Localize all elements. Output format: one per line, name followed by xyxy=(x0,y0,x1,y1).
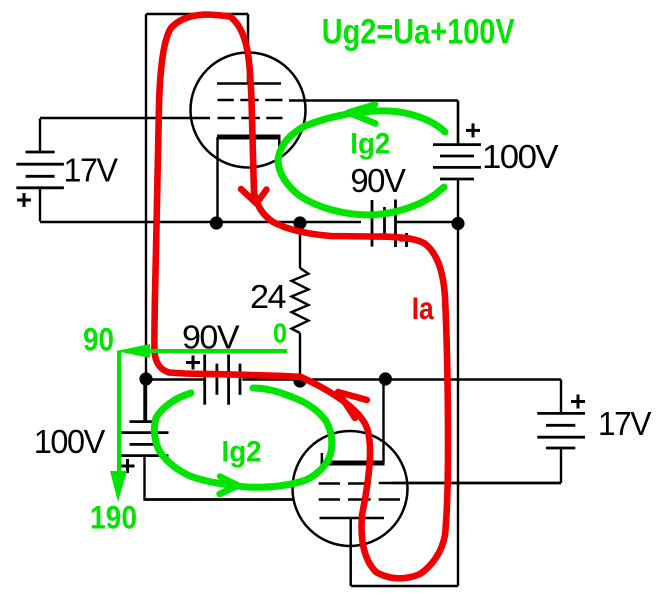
svg-text:17V: 17V xyxy=(64,151,118,188)
svg-text:90V: 90V xyxy=(350,162,405,199)
wire bottom bus right segment xyxy=(242,378,561,380)
resistor R1 24 xyxy=(292,222,309,380)
battery B1 17V left xyxy=(16,118,64,221)
battery B6 17V bottom right xyxy=(537,413,585,448)
tube V1 anode xyxy=(217,14,281,84)
measure arrow vertical (190 scale) xyxy=(110,351,127,502)
tube V1 envelope xyxy=(191,53,306,168)
svg-text:Ig2: Ig2 xyxy=(222,436,262,469)
plus sign B1 xyxy=(17,193,31,207)
svg-text:190: 190 xyxy=(90,500,137,536)
wire bottom-right screen bus xyxy=(392,482,561,484)
current loop Ia (red) xyxy=(154,15,448,579)
wire bottom-left grid bus xyxy=(145,456,295,500)
plus sign B2 xyxy=(466,123,480,137)
plus sign B3 xyxy=(400,233,414,247)
wire top bus right segment xyxy=(396,221,459,223)
wire right rail upper xyxy=(457,101,459,145)
junction node bottom cathode xyxy=(379,372,392,385)
tube V1 control grid xyxy=(40,117,283,120)
svg-text:Ia: Ia xyxy=(412,290,434,326)
current loop Ig2 top (green) xyxy=(278,111,445,215)
wire top anode rail xyxy=(146,13,248,15)
svg-text:24: 24 xyxy=(250,278,286,315)
junction node resistor bottom xyxy=(293,374,306,387)
arrowhead Ia up-left (near bottom cathode) xyxy=(338,392,367,418)
junction node right rail top bus xyxy=(451,217,464,230)
wire left rail xyxy=(145,14,147,421)
battery B4 90V bottom (horizontal) xyxy=(205,355,240,405)
battery B5 100V bottom left xyxy=(121,380,169,456)
svg-text:90: 90 xyxy=(83,321,114,357)
junction node resistor top xyxy=(293,216,306,229)
wire top bus left segment xyxy=(40,221,361,223)
junction node top cathode xyxy=(210,216,223,229)
wire bottom xyxy=(351,585,458,587)
wire right rail lower xyxy=(457,179,459,586)
plus sign B5 xyxy=(121,459,135,473)
svg-text:0: 0 xyxy=(273,318,287,349)
tube V1 screen grid xyxy=(218,99,459,102)
svg-text:Ug2=Ua+100V: Ug2=Ua+100V xyxy=(322,13,516,52)
tube V2 control grid xyxy=(145,498,401,501)
wire right 17V battery bottom lead xyxy=(560,448,562,483)
wire bottom bus left segment xyxy=(146,378,205,380)
battery B2 100V top right xyxy=(433,101,481,180)
plus sign B6 xyxy=(571,395,585,409)
svg-text:100V: 100V xyxy=(34,423,105,460)
tube V2 envelope xyxy=(293,431,408,546)
battery B3 90V top (horizontal) xyxy=(372,200,396,248)
tube V1 cathode xyxy=(217,137,281,222)
arrowhead Ia down (on tube V1 lead) xyxy=(241,189,267,204)
arrowhead Ig2 bottom (right) xyxy=(220,477,239,495)
junction node left rail bottom bus xyxy=(139,372,152,385)
measure arrow horizontal (90 scale) xyxy=(116,344,287,358)
svg-text:Ig2: Ig2 xyxy=(350,128,390,161)
tube V2 screen grid xyxy=(319,482,561,485)
wire right 17V battery top lead xyxy=(560,380,562,414)
arrowhead Ig2 top (left) xyxy=(349,105,376,124)
tube V2 cathode xyxy=(321,380,385,464)
svg-text:17V: 17V xyxy=(598,405,651,442)
svg-text:100V: 100V xyxy=(482,138,559,175)
current loop Ig2 bottom (green) xyxy=(154,388,331,487)
tube V2 anode xyxy=(320,518,385,586)
plus sign B4 xyxy=(186,356,200,370)
